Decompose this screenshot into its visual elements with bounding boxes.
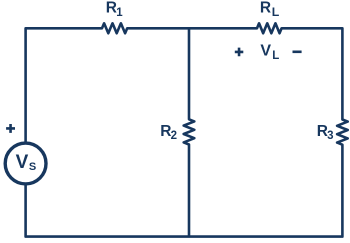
label R1 — [106, 0, 124, 19]
voltage source VS circle — [5, 143, 46, 184]
label VL — [260, 43, 279, 63]
wire middle branch with resistor R2 — [184, 28, 195, 236]
svg-text:L: L — [272, 50, 279, 62]
svg-text:R: R — [260, 0, 271, 17]
svg-text:S: S — [29, 161, 36, 173]
label VS — [16, 152, 37, 173]
svg-text:V: V — [260, 43, 271, 60]
plus sign of VL — [235, 48, 244, 57]
label RL — [260, 0, 280, 19]
svg-text:3: 3 — [327, 130, 333, 142]
plus sign of source — [6, 124, 15, 133]
label R3 — [317, 123, 334, 142]
svg-text:V: V — [16, 152, 29, 173]
svg-text:L: L — [272, 5, 280, 19]
svg-text:1: 1 — [116, 7, 123, 19]
svg-text:2: 2 — [171, 130, 177, 142]
label R2 — [160, 123, 177, 142]
minus sign of VL — [293, 50, 302, 53]
